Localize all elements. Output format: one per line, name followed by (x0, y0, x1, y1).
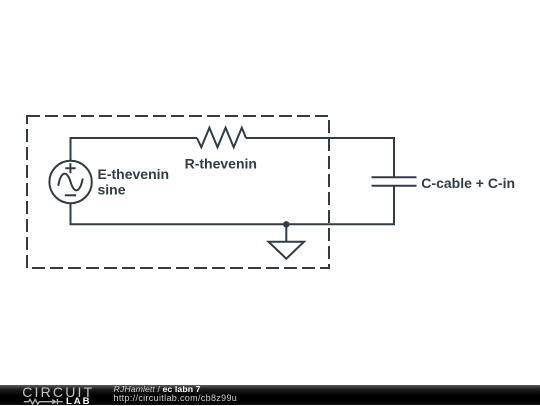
junction node dot (283, 221, 289, 227)
capacitor C bottom plate (372, 185, 417, 187)
wire: capacitor bottom lead (393, 186, 395, 224)
ground triangle (269, 242, 305, 259)
CircuitLab logo (0, 385, 100, 406)
voltage source minus sign (65, 194, 76, 196)
wire: capacitor top lead (393, 137, 395, 177)
footer bar (0, 385, 540, 406)
voltage source sine wave (58, 174, 82, 191)
logo resistor-diode squiggle (24, 399, 63, 404)
thevenin-box dashed outline (27, 116, 329, 268)
voltage source plus sign (65, 163, 75, 173)
wire: top horizontal from resistor to capacitor branch (246, 137, 395, 139)
wire: source bottom lead (70, 203, 72, 224)
credit text (0, 0, 540, 1)
voltage source V1 circle (49, 161, 91, 203)
svg-text:R-thevenin: R-thevenin (185, 155, 257, 171)
svg-text:C-cable + C-in: C-cable + C-in (421, 175, 515, 191)
wire: source top lead (70, 138, 72, 161)
wire: bottom horizontal from capacitor to source (70, 223, 396, 225)
wire: top horizontal from source to resistor (70, 137, 198, 139)
svg-text:sine: sine (98, 182, 126, 198)
resistor R-thevenin zigzag (197, 128, 246, 148)
svg-text:E-thevenin: E-thevenin (98, 166, 170, 182)
svg-text:LAB: LAB (66, 396, 91, 406)
ground stub wire (285, 224, 287, 241)
capacitor C top plate (372, 176, 417, 178)
